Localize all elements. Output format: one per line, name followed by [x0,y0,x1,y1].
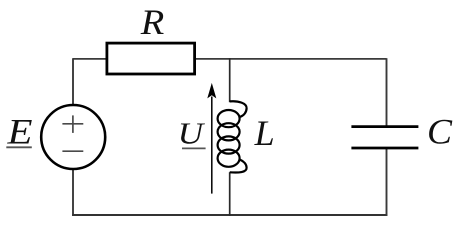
wire: middle branch lower (inductor to bottom wire) [229,172,231,216]
minus sign inside source [62,150,83,152]
capacitor C: top plate [351,125,418,128]
plus sign inside source [62,115,83,132]
inductor L: ring 1 [218,110,240,127]
wire: right vertical lower (capacitor to bottom wire) [386,149,388,216]
inductor L: entry hook [230,101,247,117]
wire: bottom segment [72,214,387,216]
svg-text:C: C [427,112,453,152]
wire: top-left segment (source top to resistor) [73,58,106,60]
wire: middle branch upper (top wire to inductor) [229,58,231,102]
svg-text:E: E [6,112,32,152]
wire: left vertical upper (source to top wire) [72,58,74,105]
wire: left vertical lower (source to bottom wire) [72,169,74,216]
svg-text:U: U [178,116,206,151]
voltage arrow U (shaft) [211,97,213,194]
voltage arrow U (head) [207,83,216,99]
inductor L: exit hook [230,160,247,173]
inductor L: ring 2 [218,123,240,140]
svg-text:R: R [140,2,165,42]
underline of E [6,146,32,148]
resistor R (rectangle body) [107,43,195,74]
svg-text:L: L [254,113,275,153]
inductor L: ring 3 [218,136,240,153]
underline of U [182,147,206,149]
capacitor C: bottom plate [351,147,418,150]
wire: right vertical upper (top wire to capacitor) [386,58,388,125]
wire: top segment (resistor to right branch) [196,58,387,60]
voltage source E (circle) [41,105,105,169]
inductor L: ring 4 [218,150,240,167]
